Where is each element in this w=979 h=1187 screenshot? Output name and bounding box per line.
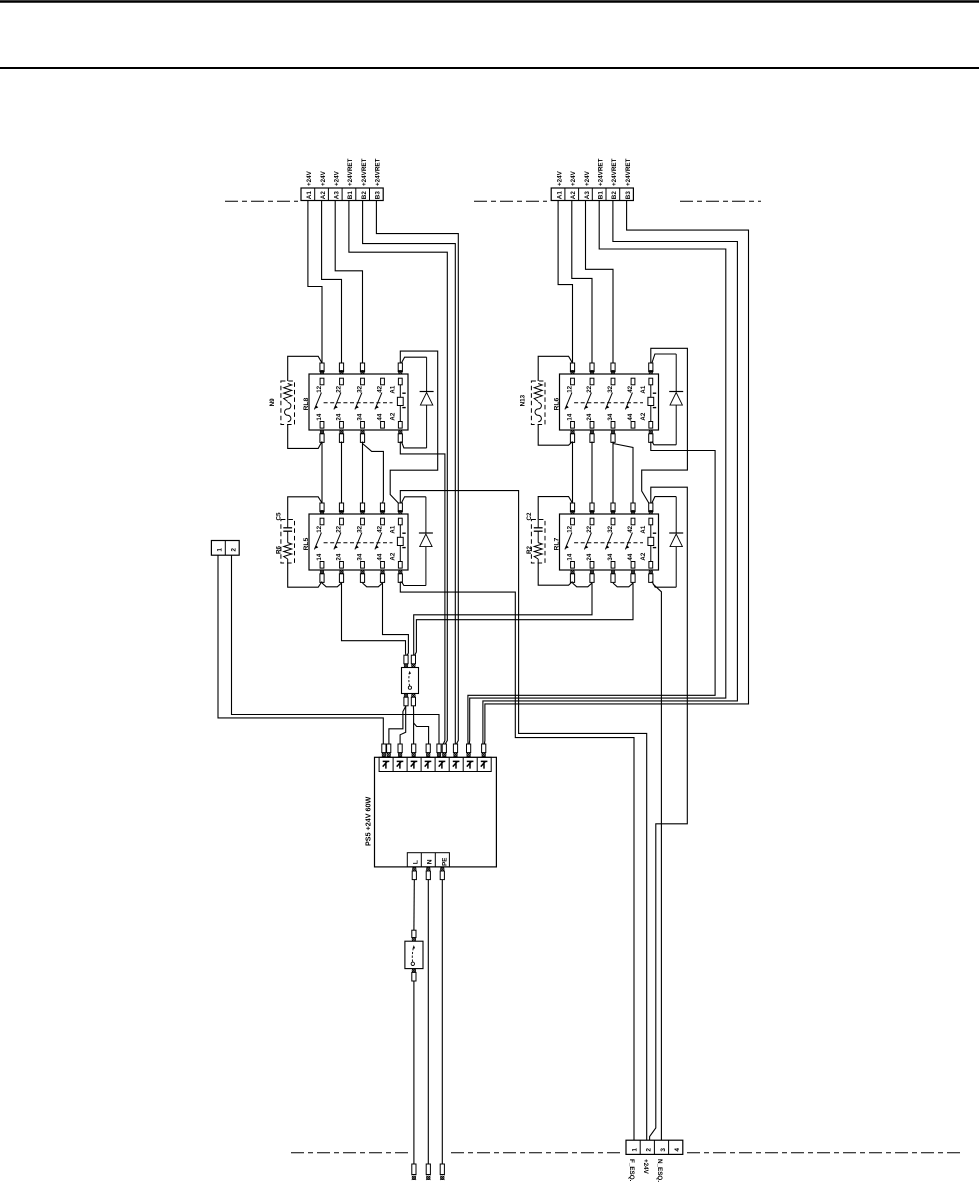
breaker F1 output pads [404,693,416,706]
relay RL7 contact 2 (22-24) [584,518,593,568]
svg-text:+24V: +24V [320,170,327,186]
svg-text:R2: R2 [526,545,533,554]
dashed panel boundary (bottom, middle segment) [451,1152,624,1154]
terminal block X-bottom (1..4) [626,1140,683,1154]
svg-text:A1: A1 [306,191,313,200]
svg-text:A1: A1 [640,385,647,393]
terminal block X-right (A1..B3) [551,188,633,201]
svg-text:RL7: RL7 [554,537,561,550]
svg-text:A1: A1 [390,525,397,533]
svg-text:A2: A2 [640,552,647,560]
svg-text:+24V: +24V [584,170,591,186]
wire RL6 pin 34 to RL7 pin 32 [612,442,614,504]
jumper RL7 pins 14-24 [573,583,593,587]
wire +24V A3-left to RL8 pin 32 [335,201,362,364]
wire breaker F1 output to PSU terminal 3 [412,706,414,744]
wire +24V A1-left to RL8 pin 12 [308,201,322,364]
dashed panel boundary (top row, right segment) [680,200,761,202]
svg-text:2: 2 [646,1148,653,1152]
relay RL5 contact 1 (12-14) [314,518,324,568]
svg-text:+24V: +24V [334,170,341,186]
relay RL7 body [560,514,659,570]
svg-text:32: 32 [357,525,364,532]
svg-text:RL5: RL5 [303,537,310,550]
wire RL8 A1 to diode D-RL8 anode (inner loop) [401,357,426,363]
top border rule [0,0,979,3]
wire RL7 pin 44 to breaker F1 input [415,583,633,655]
field wire end N [426,1164,430,1180]
relay RL7 coil A1-A2 [640,518,656,568]
label N13 [520,394,527,406]
breaker F1 body [402,668,419,694]
relay RL6 contact 4 (42-44) [625,378,634,428]
relay RL7 outside terminal pads [570,503,653,582]
svg-text:34: 34 [607,553,614,560]
breaker F1 input pads [404,655,416,668]
power supply PS5 label [364,796,373,846]
relay RL8 contact 2 (22-24) [334,378,344,428]
svg-text:C5: C5 [276,512,283,521]
relay RL7 contact 4 (42-44) [625,518,634,568]
svg-text:14: 14 [316,413,323,420]
relay RL6 label [554,397,561,410]
wire +24VRET B1-left to PSU terminal 5 [349,201,447,745]
svg-text:A2: A2 [570,191,577,200]
wire RL6 pin 24 to RL7 pin 22 [591,442,593,504]
relay RL6 coil A1-A2 [640,378,656,428]
relay RL6 body [560,374,659,430]
wire +24V A1-right to RL6 pin 12 [558,201,572,364]
wire breaker F1 output to PSU terminal 1b [389,706,406,744]
wire snubber N9 top to RL8 pin 12 [288,356,322,381]
svg-text:44: 44 [627,413,634,420]
field wire end L [412,1164,416,1180]
wire snubber C5/R6 top to RL5 pin 12 [288,497,322,520]
wire RL7 A2 down to bottom terminal 3 [653,584,661,1140]
svg-text:32: 32 [357,385,364,392]
PSU input terminal pads [382,744,486,757]
label N9 [269,398,276,407]
power supply PS5 body [375,757,497,867]
svg-text:A2: A2 [390,412,397,420]
breaker F2 input pad [412,930,416,941]
wire snubber N9 bottom to RL8 pin 14 [288,425,322,449]
dashed panel boundary (bottom, left segment) [291,1152,408,1154]
wire RL5 A1 to diode D-RL5 anode (inner loop) [401,497,426,503]
wire RL7 A1 to diode D-RL7 anode (inner loop) [652,497,676,503]
relay RL6 contact 2 (22-24) [584,378,593,428]
svg-text:N13: N13 [520,394,527,406]
label C2 [526,512,533,521]
snubber module C2/R2 (dashed) [531,520,545,564]
svg-text:12: 12 [316,385,323,392]
svg-text:C2: C2 [526,512,533,521]
svg-text:A3: A3 [334,191,341,200]
svg-text:14: 14 [567,413,574,420]
svg-text:22: 22 [336,385,343,392]
suppressor module N9 (dashed) [281,381,295,425]
svg-text:4: 4 [674,1148,681,1152]
svg-text:42: 42 [377,385,384,392]
svg-text:+24VRET: +24VRET [598,158,605,186]
relay RL5 mechanical linkage [324,542,393,544]
svg-text:32: 32 [607,385,614,392]
relay RL6 contact 1 (12-14) [565,378,574,428]
net labels +24V / +24VRET (left block) [306,158,382,186]
svg-text:N_ESQ.: N_ESQ. [656,1159,663,1182]
relay RL7 contact 3 (32-34) [605,518,614,568]
terminal block X-left (A1..B3) [301,188,383,201]
wire RL8 pin 34 to RL5 pin 32 [362,442,364,504]
svg-text:B3: B3 [625,191,632,200]
svg-text:F_ESQ.: F_ESQ. [628,1159,635,1182]
svg-text:+24VRET: +24VRET [375,158,382,186]
wire RL8 pin 14 to RL5 pin 12 [321,442,323,504]
dashed panel boundary (top row, left segment) [225,200,298,202]
svg-text:A2: A2 [640,412,647,420]
svg-text:22: 22 [586,385,593,392]
wire RL7 A2 to diode D-RL7 return [652,582,676,588]
diode D-RL7 (across RL7 coil) [669,497,683,588]
svg-text:3: 3 [660,1148,667,1152]
relay RL7 mechanical linkage [574,542,643,544]
wire snubber N13 top to RL6 pin 12 [538,356,572,381]
wire RL8 A2 down to PSU terminal 5 [400,442,445,745]
svg-text:A1: A1 [390,385,397,393]
svg-text:R6: R6 [276,545,283,554]
svg-text:44: 44 [627,553,634,560]
svg-text:+24VRET: +24VRET [625,158,632,186]
label C5 [276,512,283,521]
wire +24V A3-right to RL6 pin 32 [586,201,614,364]
diode D-RL6 (across RL6 coil) [669,354,683,445]
wire breaker F1 output to PSU terminal 2 [400,706,406,744]
svg-text:L: L [413,860,420,864]
relay RL5 outside terminal pads [320,503,403,582]
relay RL8 body [309,374,408,430]
svg-text:42: 42 [377,525,384,532]
svg-text:A3: A3 [584,191,591,200]
svg-text:14: 14 [567,553,574,560]
wire snubber C2/R2 top to RL7 pin 12 [538,497,572,520]
svg-text:+24V: +24V [306,170,313,186]
suppressor module N13 (dashed) [531,381,545,425]
relay RL5 coil A1-A2 [390,518,406,568]
PSU input terminal cells [379,757,491,771]
jumper RL5 pins 14-24 [322,583,342,587]
dashed panel boundary (bottom, right segment) [687,1152,960,1154]
diode D-RL8 (across RL8 coil) [420,357,434,448]
svg-text:34: 34 [357,553,364,560]
svg-text:44: 44 [377,553,384,560]
relay RL8 contact 3 (32-34) [355,378,365,428]
jumper RL7 pins 34-44 [613,583,633,587]
svg-text:14: 14 [316,553,323,560]
relay RL8 mechanical linkage [324,402,393,404]
svg-text:22: 22 [586,525,593,532]
relay RL8 label [303,397,310,410]
relay RL8 coil A1-A2 [390,378,406,428]
svg-text:34: 34 [607,413,614,420]
svg-text:N: N [427,859,434,864]
dashed panel boundary (top row, middle segment) [474,200,547,202]
svg-text:2: 2 [231,548,238,552]
svg-text:A2: A2 [320,191,327,200]
breaker F2 body [405,941,423,968]
svg-text:+24V: +24V [556,170,563,186]
terminal block X-aux (1,2) [211,541,239,556]
svg-text:42: 42 [627,385,634,392]
relay RL5 contact 2 (22-24) [334,518,344,568]
wire RL8 A2 to diode D-RL8 cathode return [401,442,426,448]
wire L from PSU to breaker F2 [413,880,415,931]
relay RL7 contact 1 (12-14) [565,518,574,568]
wire RL5 A1 (+24V rail) down to bottom terminal 2 [400,491,646,1141]
svg-text:N9: N9 [269,398,276,407]
relay RL6 contact 3 (32-34) [605,378,614,428]
svg-text:12: 12 [567,385,574,392]
svg-text:B2: B2 [361,191,368,200]
relay RL8 outside terminal pads [320,363,403,442]
wire +24VRET B3-left to PSU terminal 6 [376,201,458,745]
svg-text:+24VRET: +24VRET [347,158,354,186]
wire +24VRET B2-right to PSU terminal 8 [483,201,738,745]
relay RL8 contact 4 (42-44) [375,378,385,428]
wire +24V A2-right to RL6 pin 22 [572,201,592,364]
svg-text:24: 24 [586,553,593,560]
wire RL7 pin 24 to breaker F1 input [414,583,592,655]
wire snubber C2/R2 bottom to RL7 pin 14 [538,563,572,585]
wire +24VRET B3-right to PSU terminal 8 [484,201,748,745]
net labels +24V / +24VRET (right block) [556,158,632,186]
wire RL5 pin 24 to breaker F1 input [342,583,407,655]
diode D-RL5 (across RL5 coil) [419,497,433,586]
relay RL5 body [309,514,408,570]
svg-text:A1: A1 [556,191,563,200]
wire X-aux 1 to PSU terminal 1a [218,555,383,744]
wire snubber C5/R6 bottom to RL5 pin 14 [288,563,322,587]
svg-text:12: 12 [316,525,323,532]
PSU output pads [412,867,444,880]
relay RL5 contact 4 (42-44) [375,518,385,568]
svg-text:RL6: RL6 [554,397,561,410]
wire RL6 A1 to diode D-RL6 anode (inner loop) [652,354,676,363]
label R2 [526,545,533,554]
svg-text:42: 42 [627,525,634,532]
field wire end PE [440,1164,444,1180]
wire RL5 A2 to diode D-RL5 return [401,582,426,586]
svg-text:+24V: +24V [642,1159,649,1175]
wire N to bottom field [427,880,429,1164]
svg-text:1: 1 [631,1148,638,1152]
wire RL5 A2 down to bottom terminal 1 [400,582,634,1141]
wire RL6 A1 chain to RL7 A1 (outer loop) [642,348,688,503]
svg-text:B1: B1 [347,191,354,200]
svg-text:32: 32 [607,525,614,532]
svg-text:+24VRET: +24VRET [611,158,618,186]
wire RL8 A1 chain to RL5 A1 (outer loop) [390,351,438,503]
svg-text:PS5 +24V 60W: PS5 +24V 60W [364,796,373,846]
svg-text:B1: B1 [598,191,605,200]
svg-text:A2: A2 [390,552,397,560]
relay RL7 label [554,537,561,550]
svg-text:24: 24 [336,413,343,420]
relay RL5 contact 3 (32-34) [355,518,365,568]
bottom terminal net labels [628,1159,663,1182]
header separator rule [0,67,979,69]
svg-text:24: 24 [586,413,593,420]
svg-text:+24V: +24V [570,170,577,186]
wire snubber N13 bottom to RL6 pin 14 [538,425,572,446]
relay RL5 label [303,537,310,550]
wire +24VRET B1-right to PSU terminal 7 [469,201,726,745]
relay RL8 contact 1 (12-14) [314,378,324,428]
relay RL6 mechanical linkage [574,402,643,404]
wire RL6 pin 14 to RL7 pin 12 [572,442,574,504]
svg-text:1: 1 [217,548,224,552]
wire RL6 A2 to PSU terminal 7 [468,442,715,745]
svg-text:RL8: RL8 [303,397,310,410]
wire X-aux 2 to PSU terminal 5a [232,555,440,744]
wire RL8 pin 34 branch to RL5 pin 42 [363,444,384,504]
PSU output cells L / N / PE [407,853,449,867]
svg-text:+24VRET: +24VRET [361,158,368,186]
snubber module C5/R6 (dashed) [281,520,295,564]
svg-text:34: 34 [357,413,364,420]
svg-text:B2: B2 [611,191,618,200]
jumper RL5 pins 34-44 [363,583,383,587]
svg-text:44: 44 [377,413,384,420]
svg-text:A1: A1 [640,525,647,533]
wire +24V A2-left to RL8 pin 22 [322,201,342,364]
svg-text:B3: B3 [375,191,382,200]
wire RL6 pin 34 branch to RL7 pin 42 [613,444,633,504]
wire RL6 A2 to diode D-RL6 return [652,442,676,445]
wire breaker F1 output branch to PSU terminal 4 [414,723,429,744]
wire PE to bottom field [441,880,443,1164]
label R6 [276,545,283,554]
wire +24VRET B2-left to PSU terminal 6 [363,201,456,745]
svg-text:12: 12 [567,525,574,532]
svg-text:22: 22 [336,525,343,532]
wire L to bottom field [413,981,415,1164]
wire RL8 pin 24 to RL5 pin 22 [341,442,343,504]
relay RL6 outside terminal pads [570,363,653,442]
breaker F2 output pad [412,968,416,981]
wire RL5 pin 44 to breaker F1 input [383,583,409,655]
svg-text:24: 24 [336,553,343,560]
wire RL7 A1 (+24V rail) down to bottom terminal 2 [650,487,688,1140]
svg-text:PE: PE [442,858,449,866]
